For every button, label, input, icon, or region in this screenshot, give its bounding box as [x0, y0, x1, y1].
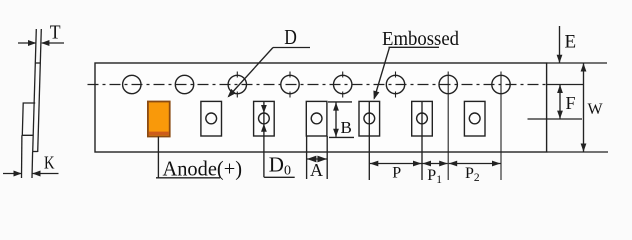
- sprocket hole 7 (P1/P2 reference): [439, 75, 457, 93]
- B extension lines: [328, 101, 352, 103]
- pocket centerline extension (F bottom reference): [528, 118, 583, 120]
- T dimension arrow lines: [18, 42, 36, 44]
- svg-text:A: A: [310, 160, 323, 180]
- embossed pocket bump (side view): [22, 103, 35, 135]
- pocket 6 (P/P1 reference): [412, 101, 433, 136]
- sprocket hole 4: [281, 75, 299, 93]
- svg-text:P: P: [392, 164, 401, 181]
- main view: carrier tape outline: [95, 63, 547, 152]
- W dimension: [583, 64, 585, 152]
- svg-text:B: B: [341, 118, 352, 137]
- P1 dimension arrows: [423, 163, 448, 165]
- sprocket hole 1: [123, 75, 141, 93]
- side view strip bottom cap: [33, 151, 38, 153]
- top edge extension line: [547, 62, 607, 64]
- E dimension: [559, 26, 561, 63]
- D0 label underline: [264, 176, 295, 178]
- P2 dimension arrows: [449, 163, 501, 165]
- pocket 3 (D0 reference): [254, 101, 275, 136]
- svg-text:W: W: [588, 101, 604, 118]
- A dimension arrows: [307, 158, 327, 160]
- sprocket hole 2: [175, 75, 193, 93]
- svg-text:K: K: [44, 153, 55, 173]
- svg-text:F: F: [566, 93, 576, 113]
- A extension lines: [306, 136, 308, 179]
- sprocket hole 8 (P2 reference): [492, 75, 510, 93]
- K dimension arrow lines: [3, 173, 21, 175]
- Embossed label leader: [389, 46, 440, 48]
- svg-text:T: T: [50, 22, 61, 44]
- sprocket hole 6: [386, 75, 404, 93]
- sprocket hole 5: [334, 75, 352, 93]
- T dimension arrowheads: [28, 40, 36, 46]
- K dimension arrowheads: [14, 171, 22, 177]
- bottom edge extension line: [547, 151, 608, 153]
- Anode leader line: [157, 137, 159, 178]
- sprocket centerline (dash-dot): [88, 84, 547, 86]
- orange component pocket (anode mark): [148, 102, 170, 137]
- pocket 5 (Embossed, P reference): [359, 101, 380, 136]
- pocket 7: [464, 101, 485, 136]
- pocket 4 (A/B reference): [306, 101, 327, 136]
- P dimension arrows: [370, 163, 422, 165]
- side view tape strip left line: [33, 29, 37, 152]
- svg-text:E: E: [565, 32, 577, 53]
- side view tape strip right line: [38, 29, 42, 152]
- K extension line from strip: [31, 152, 34, 178]
- D label leader: [273, 47, 310, 49]
- svg-text:Anode(+): Anode(+): [163, 157, 243, 181]
- D0 dimension line through pocket 3: [263, 101, 265, 177]
- B dimension arrow: [335, 103, 337, 137]
- svg-text:D: D: [284, 25, 297, 49]
- svg-text:Embossed: Embossed: [382, 28, 459, 50]
- side view strip top-section tick: [35, 62, 40, 64]
- sprocket hole 3: [228, 75, 246, 93]
- centerline right extension: [547, 84, 584, 86]
- pocket 2: [201, 101, 222, 136]
- K extension line from bump face: [21, 135, 23, 178]
- F dimension: [559, 85, 561, 119]
